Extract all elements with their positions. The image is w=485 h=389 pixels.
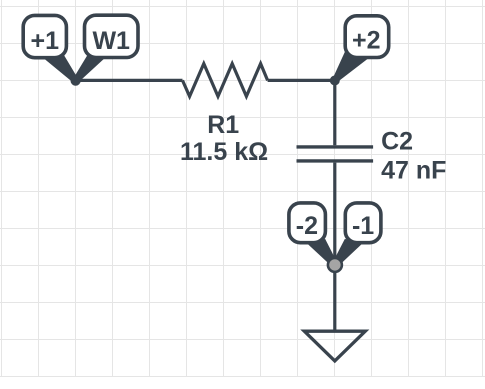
- capacitor C2: [297, 147, 374, 161]
- svg-text:W1: W1: [92, 27, 130, 55]
- svg-text:11.5 kΩ: 11.5 kΩ: [180, 138, 268, 166]
- wire: [268, 79, 335, 82]
- tag +2 box: [345, 16, 389, 58]
- wire: [333, 163, 336, 330]
- wire: [333, 80, 336, 145]
- node C gray terminal node: [328, 258, 342, 272]
- node B junction dot: [330, 76, 340, 86]
- tag -1 box: [345, 203, 381, 243]
- wire: [76, 79, 183, 82]
- svg-text:R1: R1: [207, 111, 239, 139]
- node A junction dot: [71, 76, 81, 86]
- ground: [304, 331, 365, 361]
- tag W1 tail: [73, 50, 106, 82]
- svg-text:-1: -1: [352, 212, 374, 240]
- tag +1 tail: [42, 50, 79, 82]
- tag -2 tail: [305, 239, 337, 266]
- tag +2 tail: [333, 51, 371, 82]
- svg-text:+1: +1: [31, 27, 60, 55]
- svg-text:+2: +2: [352, 27, 381, 55]
- tag +1 box: [23, 15, 66, 57]
- svg-text:47 nF: 47 nF: [381, 156, 446, 184]
- tag -2 box: [289, 203, 326, 243]
- tag -1 tail: [333, 239, 365, 266]
- resistor R1: [183, 64, 268, 97]
- tag W1 box: [85, 15, 139, 57]
- svg-text:-2: -2: [296, 212, 318, 240]
- svg-text:C2: C2: [381, 127, 413, 155]
